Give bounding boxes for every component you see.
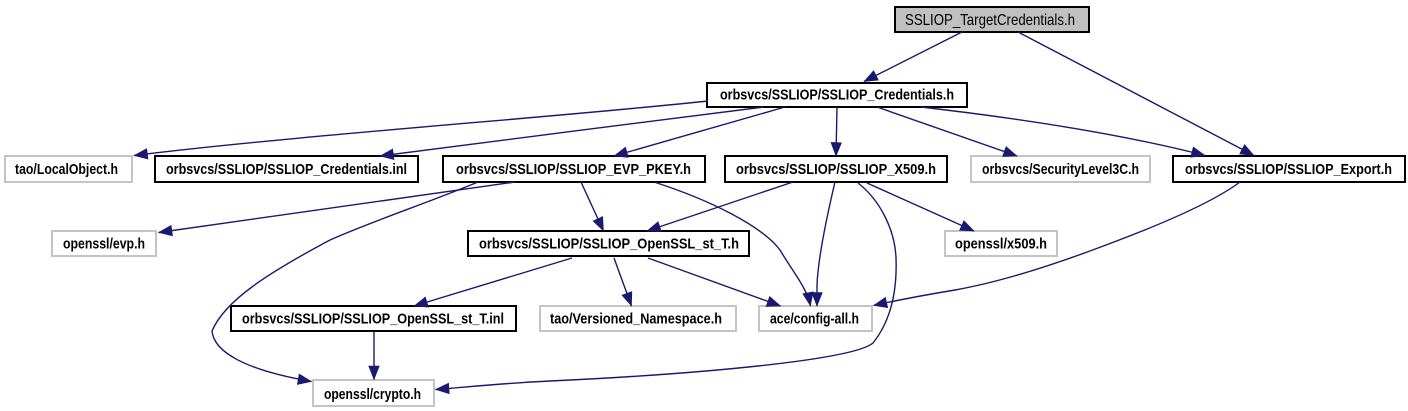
wire OpenSSL_st_T.h to ace/config-all.h <box>648 258 781 306</box>
wire Credentials.h to SecurityLevel3C.h <box>877 107 1017 156</box>
node orbsvcs/SSLIOP/SSLIOP_Credentials.h <box>707 83 967 107</box>
wire EVP_PKEY.h to openssl/evp.h <box>159 182 516 233</box>
node tao/Versioned_Namespace.h <box>540 306 736 331</box>
wire Credentials.h to SSLIOP_Credentials.inl <box>380 107 764 156</box>
node orbsvcs/SecurityLevel3C.h <box>971 156 1150 182</box>
wire OpenSSL_st_T.inl to openssl/crypto.h <box>373 331 375 380</box>
svg-text:ace/config-all.h: ace/config-all.h <box>770 311 859 328</box>
node orbsvcs/SSLIOP/SSLIOP_X509.h <box>725 156 947 182</box>
wire Credentials.h to SSLIOP_EVP_PKEY.h <box>614 107 785 156</box>
node orbsvcs/SSLIOP/SSLIOP_EVP_PKEY.h <box>443 156 705 182</box>
wire X509.h to SSLIOP_OpenSSL_st_T.h <box>647 182 793 231</box>
node openssl/crypto.h <box>313 380 434 406</box>
wire EVP_PKEY.h to ace/config-all.h <box>654 182 811 306</box>
node orbsvcs/SSLIOP/SSLIOP_OpenSSL_st_T.inl <box>231 306 516 331</box>
wire X509.h to openssl/crypto.h <box>436 183 897 390</box>
svg-text:orbsvcs/SSLIOP/SSLIOP_OpenSSL_: orbsvcs/SSLIOP/SSLIOP_OpenSSL_st_T.inl <box>242 311 504 328</box>
svg-text:openssl/x509.h: openssl/x509.h <box>955 236 1047 253</box>
wire EVP_PKEY.h to SSLIOP_OpenSSL_st_T.h <box>581 182 604 231</box>
wire root to SSLIOP_Credentials.h <box>864 32 962 82</box>
svg-text:tao/LocalObject.h: tao/LocalObject.h <box>15 161 118 178</box>
wire EVP_PKEY.h to openssl/crypto.h <box>212 182 478 382</box>
svg-text:orbsvcs/SecurityLevel3C.h: orbsvcs/SecurityLevel3C.h <box>982 161 1139 178</box>
wire Credentials.h to tao/LocalObject.h <box>134 101 708 156</box>
svg-text:orbsvcs/SSLIOP/SSLIOP_Credenti: orbsvcs/SSLIOP/SSLIOP_Credentials.h <box>720 87 954 104</box>
svg-text:orbsvcs/SSLIOP/SSLIOP_Export.h: orbsvcs/SSLIOP/SSLIOP_Export.h <box>1185 161 1392 178</box>
svg-text:SSLIOP_TargetCredentials.h: SSLIOP_TargetCredentials.h <box>905 12 1075 29</box>
wire root to SSLIOP_Export.h <box>1018 32 1254 156</box>
wire X509.h to openssl/x509.h <box>867 183 974 231</box>
svg-text:openssl/evp.h: openssl/evp.h <box>63 236 145 253</box>
svg-text:orbsvcs/SSLIOP/SSLIOP_Credenti: orbsvcs/SSLIOP/SSLIOP_Credentials.inl <box>166 161 407 178</box>
wire OpenSSL_st_T.h to SSLIOP_OpenSSL_st_T.inl <box>414 258 572 306</box>
node orbsvcs/SSLIOP/SSLIOP_OpenSSL_st_T.h <box>468 231 749 256</box>
wire Credentials.h to SSLIOP_X509.h <box>836 107 837 156</box>
svg-text:openssl/crypto.h: openssl/crypto.h <box>324 386 421 403</box>
wire OpenSSL_st_T.h to tao/Versioned_Namespace.h <box>614 258 632 306</box>
wire X509.h to ace/config-all.h <box>817 182 835 306</box>
svg-text:orbsvcs/SSLIOP/SSLIOP_X509.h: orbsvcs/SSLIOP/SSLIOP_X509.h <box>736 161 936 178</box>
svg-text:tao/Versioned_Namespace.h: tao/Versioned_Namespace.h <box>550 311 722 328</box>
node tao/LocalObject.h <box>5 156 132 182</box>
svg-text:orbsvcs/SSLIOP/SSLIOP_EVP_PKEY: orbsvcs/SSLIOP/SSLIOP_EVP_PKEY.h <box>456 161 691 178</box>
node SSLIOP_TargetCredentials.h (root) <box>895 7 1089 32</box>
node openssl/evp.h <box>52 231 156 256</box>
wire Export.h to ace/config-all.h <box>874 182 1241 306</box>
node ace/config-all.h <box>759 306 872 331</box>
node orbsvcs/SSLIOP/SSLIOP_Credentials.inl <box>155 156 418 182</box>
node openssl/x509.h <box>945 231 1057 256</box>
wire Credentials.h to SSLIOP_Export.h <box>921 107 1205 156</box>
svg-text:orbsvcs/SSLIOP/SSLIOP_OpenSSL_: orbsvcs/SSLIOP/SSLIOP_OpenSSL_st_T.h <box>479 236 739 253</box>
node orbsvcs/SSLIOP/SSLIOP_Export.h <box>1173 156 1405 182</box>
